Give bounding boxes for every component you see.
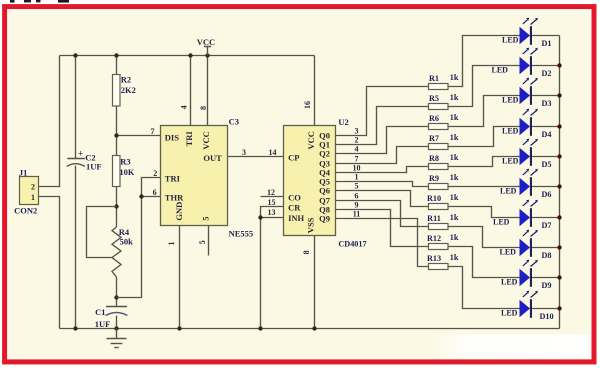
svg-text:1UF: 1UF (95, 319, 111, 329)
LED D9 symbol (501, 260, 538, 287)
svg-text:1k: 1k (450, 193, 459, 202)
junction node R3/R4 top (114, 204, 118, 208)
connector J1 CON2 (14, 168, 38, 216)
wire LED D8 cathode to bus (532, 247, 560, 249)
svg-text:R6: R6 (429, 114, 439, 123)
wire net5 Q4 to R8 (336, 167, 429, 173)
svg-text:Q9: Q9 (319, 214, 330, 224)
svg-text:LED: LED (500, 187, 517, 196)
svg-text:1k: 1k (450, 213, 459, 222)
wire LED D6 cathode to bus (532, 186, 560, 188)
svg-text:LED: LED (501, 278, 518, 287)
svg-text:R7: R7 (429, 134, 439, 143)
junction D9 bus (557, 275, 561, 279)
wire THR pin6 stub (142, 196, 161, 198)
svg-text:1k: 1k (450, 93, 459, 102)
wire OUT pin3 to CP pin14 (228, 156, 284, 158)
wire R2 bottom to DIS node (116, 106, 118, 156)
junction D8 bus (557, 245, 561, 249)
resistor R8 1k (429, 153, 459, 169)
svg-text:CP: CP (288, 153, 299, 163)
svg-text:1k: 1k (450, 73, 459, 82)
wire net6 R9 to LED D6 (448, 186, 521, 188)
svg-text:4: 4 (180, 105, 189, 109)
wire LED D2 cathode to bus (532, 65, 560, 67)
svg-text:7: 7 (355, 154, 359, 163)
svg-text:1UF: 1UF (86, 162, 102, 172)
junction R2 top rail (114, 53, 118, 57)
svg-text:R13: R13 (427, 254, 441, 263)
svg-text:OUT: OUT (203, 153, 222, 163)
wire net1 R1 to LED D1 (448, 36, 521, 87)
counter IC U2 CD4017 body (284, 126, 336, 236)
svg-text:DIS: DIS (165, 132, 179, 142)
wire net6 Q5 to R9 (336, 182, 429, 187)
junction D2 bus (557, 63, 561, 67)
junction D10 bus (557, 306, 561, 310)
wire LED D1 cathode to bus (532, 35, 560, 37)
svg-text:CO: CO (288, 193, 301, 203)
ground symbol (107, 329, 127, 348)
svg-text:1k: 1k (450, 233, 459, 242)
wire VCC top rail (60, 55, 315, 57)
wire C1 bottom lead (116, 316, 118, 329)
svg-text:NE555: NE555 (229, 228, 254, 238)
svg-text:D10: D10 (540, 312, 554, 321)
resistor R6 1k (429, 113, 459, 129)
wire R4 wiper loop (87, 207, 117, 258)
resistor R9 1k (429, 173, 459, 189)
svg-text:7: 7 (151, 127, 155, 136)
wire net7 Q6 to R10 (336, 191, 429, 207)
wire net1 Q0 to R1 (336, 87, 429, 136)
svg-text:LED: LED (502, 36, 519, 45)
LED D7 symbol (493, 200, 538, 227)
wire net3 Q2 to R6 (336, 127, 429, 154)
svg-text:LED: LED (501, 309, 518, 318)
svg-text:VCC: VCC (197, 37, 215, 47)
wire C2 branch upper (75, 56, 77, 159)
LED D2 symbol (492, 48, 538, 75)
wire 555 pin8 to rail (207, 56, 209, 127)
svg-text:R5: R5 (429, 94, 439, 103)
wire LED D7 cathode to bus (532, 217, 560, 219)
svg-text:U2: U2 (338, 117, 348, 127)
junction INH ground rail (258, 326, 262, 330)
svg-text:THR: THR (165, 192, 184, 202)
junction D6 bus (557, 184, 561, 188)
svg-text:11: 11 (353, 209, 361, 218)
svg-text:14: 14 (269, 148, 277, 157)
LED D1 symbol (502, 18, 538, 45)
wire net9 Q8 to R12 (336, 210, 429, 247)
svg-text:TRI: TRI (165, 174, 181, 184)
timer IC NE555 body (161, 126, 228, 226)
wire 555 pin1 GND down to rail (179, 226, 181, 329)
resistor R13 1k (427, 253, 459, 269)
svg-text:LED: LED (500, 248, 517, 257)
wire LED D9 cathode to bus (532, 277, 560, 279)
wire net9 R12 to LED D9 (448, 247, 521, 278)
capacitor C1 1UF (95, 307, 128, 330)
svg-text:D3: D3 (542, 99, 552, 108)
svg-text:LED: LED (502, 96, 519, 105)
wire LED cathode bus (559, 36, 561, 329)
svg-text:2: 2 (355, 135, 359, 144)
svg-text:C1: C1 (95, 307, 105, 317)
svg-text:D1: D1 (542, 39, 552, 48)
svg-text:8: 8 (199, 106, 208, 110)
svg-text:D2: D2 (542, 69, 552, 78)
svg-text:CON2: CON2 (14, 205, 37, 215)
wire LED D5 cathode to bus (532, 156, 560, 158)
wire net2 R5 to LED D2 (448, 66, 521, 107)
svg-text:50k: 50k (120, 237, 134, 247)
svg-text:1k: 1k (450, 173, 459, 182)
wire net3 R6 to LED D3 (448, 96, 521, 127)
svg-text:D6: D6 (542, 190, 552, 199)
junction C2 top rail (73, 53, 77, 57)
junction node R4 bottom / C1 (114, 295, 118, 299)
wire CD4017 pin8 VSS to ground rail (314, 236, 316, 329)
svg-text:R11: R11 (427, 214, 441, 223)
junction D3 bus (557, 93, 561, 97)
wire net4 R7 to LED D4 (448, 127, 521, 147)
LED D5 symbol (502, 139, 538, 166)
svg-text:VSS: VSS (306, 217, 316, 233)
svg-text:R8: R8 (429, 154, 439, 163)
svg-text:1: 1 (31, 193, 35, 202)
svg-text:10: 10 (353, 163, 361, 172)
wire R3 bottom lead (116, 187, 118, 228)
svg-text:1k: 1k (450, 113, 459, 122)
wire net10 Q9 to R13 (336, 219, 429, 267)
svg-text:LED: LED (493, 218, 510, 227)
svg-text:2: 2 (153, 169, 157, 178)
resistor R12 1k (427, 233, 459, 249)
LED D10 symbol (501, 291, 538, 318)
svg-text:R9: R9 (429, 174, 439, 183)
svg-text:R2: R2 (121, 75, 131, 85)
wire LED D3 cathode to bus (532, 95, 560, 97)
LED D4 symbol (502, 109, 538, 136)
junction node DIS/R2/R3 (114, 133, 118, 137)
svg-text:8: 8 (302, 250, 311, 254)
svg-text:D7: D7 (542, 221, 552, 230)
resistor R2 2K2 (113, 75, 136, 107)
svg-text:D5: D5 (542, 160, 552, 169)
svg-text:D9: D9 (542, 281, 552, 290)
svg-text:INH: INH (288, 213, 304, 223)
svg-text:R10: R10 (427, 194, 441, 203)
wire net7 R10 to LED D7 (448, 207, 521, 218)
svg-text:CD4017: CD4017 (338, 240, 366, 249)
wire net2 Q1 to R5 (336, 107, 429, 145)
junction C1 ground rail (114, 326, 118, 330)
resistor R1 1k (429, 73, 459, 89)
svg-text:9: 9 (355, 200, 359, 209)
resistor R3 10K (113, 156, 135, 187)
wire LED D10 cathode to bus (532, 308, 560, 310)
LED D8 symbol (500, 230, 538, 257)
svg-text:13: 13 (268, 208, 276, 217)
svg-text:VCC: VCC (306, 131, 316, 149)
svg-text:1k: 1k (450, 253, 459, 262)
svg-text:Q6: Q6 (319, 186, 330, 196)
junction C2 ground rail (73, 326, 77, 330)
svg-text:5: 5 (198, 240, 207, 244)
wire bottom ground rail (60, 328, 560, 330)
svg-text:D4: D4 (542, 130, 552, 139)
wire CD4017 pin16 to rail (314, 56, 316, 127)
capacitor C2 1UF (67, 150, 102, 172)
svg-text:10K: 10K (119, 167, 134, 177)
svg-text:LED: LED (502, 127, 519, 136)
wire INH pin13 stub and ground drop (261, 218, 284, 329)
svg-text:2K2: 2K2 (121, 85, 136, 95)
junction D4 bus (557, 124, 561, 128)
wire J1 pin2 riser to VCC rail (39, 56, 60, 187)
wire R4 bottom lead (116, 277, 118, 306)
svg-text:TRI: TRI (184, 131, 194, 147)
wire net8 Q7 to R11 (336, 201, 429, 227)
resistor R5 1k (429, 93, 459, 109)
wire CO pin12 stub (261, 196, 284, 198)
resistor R11 1k (427, 213, 459, 229)
svg-text:1: 1 (355, 172, 359, 181)
svg-text:5: 5 (355, 181, 359, 190)
svg-text:3: 3 (355, 126, 359, 135)
junction CR/INH tie (258, 215, 262, 219)
svg-text:R1: R1 (429, 74, 439, 83)
wire CR pin15 stub (261, 207, 284, 218)
svg-text:16: 16 (303, 101, 312, 109)
svg-text:2: 2 (31, 183, 35, 192)
svg-text:GND: GND (174, 202, 184, 221)
resistor R7 1k (429, 133, 459, 149)
svg-text:+: + (78, 150, 83, 160)
LED D3 symbol (502, 78, 538, 105)
svg-text:CR: CR (288, 202, 301, 212)
svg-text:R12: R12 (427, 234, 441, 243)
svg-text:5: 5 (201, 216, 211, 220)
junction pin1 ground rail (177, 326, 181, 330)
wire LED D4 cathode to bus (532, 126, 560, 128)
svg-text:VCC: VCC (201, 131, 211, 149)
junction D7 bus (557, 215, 561, 219)
wire R2 top lead (116, 56, 118, 76)
resistor R10 1k (427, 193, 459, 209)
svg-text:LED: LED (502, 157, 519, 166)
potentiometer R4 50k zigzag (112, 227, 133, 277)
svg-text:1k: 1k (450, 133, 459, 142)
svg-text:12: 12 (267, 188, 275, 197)
wire net5 R8 to LED D5 (448, 157, 521, 167)
svg-text:3: 3 (242, 148, 246, 157)
svg-text:15: 15 (268, 198, 276, 207)
svg-text:C3: C3 (229, 116, 239, 126)
wire net10 R13 to LED D10 (448, 267, 521, 309)
wire DIS pin7 to node (117, 135, 161, 137)
wire C2 branch lower (75, 166, 77, 329)
junction pin4 rail (188, 53, 192, 57)
svg-text:Q2: Q2 (319, 149, 330, 159)
LED D6 symbol (500, 169, 538, 196)
wire 555 pin4 to rail (190, 56, 192, 127)
svg-text:1k: 1k (450, 153, 459, 162)
junction pin8 rail (205, 53, 209, 57)
wire net8 R11 to LED D8 (448, 227, 521, 248)
svg-text:4: 4 (355, 144, 359, 153)
wire J1 pin1 down to ground rail (39, 197, 60, 329)
svg-text:LED: LED (492, 66, 509, 75)
junction VSS ground rail (312, 326, 316, 330)
svg-text:6: 6 (153, 188, 157, 197)
svg-text:J1: J1 (19, 168, 28, 178)
junction D5 bus (557, 154, 561, 158)
svg-text:R3: R3 (120, 156, 130, 166)
wire net4 Q3 to R7 (336, 147, 429, 164)
svg-text:1: 1 (167, 242, 176, 246)
junction TRI/THR tie (139, 194, 143, 198)
wire TRI/THR tie vertical (117, 178, 161, 298)
svg-text:6: 6 (355, 191, 359, 200)
wire 555 pin5 stub (208, 226, 210, 256)
svg-text:D8: D8 (542, 251, 552, 260)
power symbol VCC (197, 37, 215, 56)
